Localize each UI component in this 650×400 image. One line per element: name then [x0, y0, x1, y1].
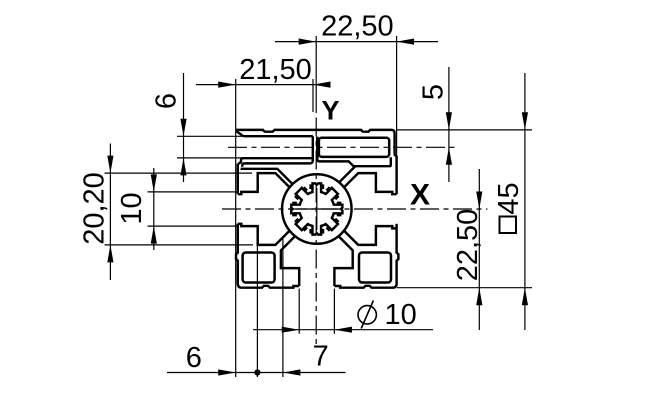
svg-text:6: 6: [151, 93, 183, 109]
dim line 6-7 bottom: [167, 372, 346, 374]
arrowhead sq45 top: [522, 112, 528, 130]
profile left slot lower chamber: [238, 224, 290, 245]
profile left slot upper chamber: [238, 173, 290, 194]
arrowhead 22,50 right top: [476, 192, 482, 210]
dim symbol diameter: [358, 306, 376, 324]
profile left face lower: [236, 224, 242, 288]
Y axis centerline: [315, 118, 317, 346]
ext line slit left wall: [312, 79, 314, 112]
dim square symbol: [500, 217, 517, 234]
arrowhead bottom 6: [218, 369, 236, 375]
arrowhead 5 bottom: [446, 147, 452, 165]
ext line 6-bottom: [177, 157, 242, 159]
ext line right face top: [396, 36, 398, 156]
arrowhead 22,50 right bottom: [476, 288, 482, 306]
svg-text:22,50: 22,50: [321, 10, 394, 42]
ext line bore right: [333, 289, 335, 334]
dim line 22,50 top: [275, 41, 438, 43]
svg-text:5: 5: [417, 84, 449, 100]
svg-text:7: 7: [313, 341, 329, 373]
profile bottom slot left chamber: [281, 236, 299, 286]
svg-text:10: 10: [385, 299, 417, 331]
ext line 20,20-bottom: [105, 244, 254, 246]
center crosshair: [296, 188, 338, 230]
profile flange slit right wall and channel underside: [317, 137, 391, 167]
dim line diameter 10: [253, 329, 433, 331]
profile top-left cavity floor: [241, 169, 293, 184]
ext line bore left: [298, 289, 300, 334]
svg-text:22,50: 22,50: [452, 209, 484, 282]
ext line 10-top: [148, 191, 239, 193]
arrowhead 10 top: [151, 174, 157, 192]
profile top-right web diagonal: [339, 166, 355, 182]
bottom-left corner square hole: [243, 253, 275, 283]
svg-text:21,50: 21,50: [239, 54, 312, 86]
arrowhead dia10 left: [282, 327, 300, 333]
profile bottom face right: [334, 228, 398, 287]
ext line top edge right: [397, 129, 532, 131]
dim line 21,50: [196, 84, 330, 86]
profile right face mouth lower edge: [395, 224, 397, 229]
arrowhead 6 left bottom: [180, 158, 186, 176]
arrowhead sq45 bottom: [522, 288, 528, 306]
svg-text:X: X: [410, 179, 430, 212]
ext line 10-bottom: [148, 225, 239, 227]
profile right slot lower chamber: [344, 226, 397, 245]
ext line core edge bottom: [282, 239, 284, 377]
profile flange channel hole: [319, 138, 389, 157]
arrowhead 6 left top: [180, 119, 186, 137]
profile right slot upper chamber: [344, 173, 397, 194]
ext line Y-axis top: [315, 36, 317, 113]
dim dot junction: [254, 369, 260, 375]
ext line chamber floor bottom: [256, 246, 258, 377]
arrowhead bottom 7: [283, 369, 301, 375]
arrowhead 20,20 top: [107, 156, 113, 174]
profile flange lower plate top edge: [238, 158, 313, 164]
arrowhead 20,20 bottom: [107, 245, 113, 263]
profile flange top plate: [237, 130, 397, 157]
arrowhead 21,50 right: [313, 82, 331, 88]
core circle: [282, 174, 352, 244]
svg-text:10: 10: [116, 192, 148, 224]
dim line 6 left: [183, 73, 185, 182]
profile bottom face left: [242, 286, 299, 288]
profile bottom slot right chamber: [334, 236, 352, 286]
arrowhead 10 bottom: [151, 226, 157, 244]
profile flange slit left wall and plate underside: [242, 136, 313, 167]
arrowhead 5 top: [446, 112, 452, 130]
dim line 22,50 right: [478, 169, 480, 330]
center bore gear: [291, 183, 342, 234]
ext line flange tip (long left): [235, 79, 237, 377]
svg-text:6: 6: [186, 342, 202, 374]
X axis centerline: [222, 208, 487, 210]
ext line 20,20-top: [105, 172, 253, 174]
arrowhead dia10 right: [334, 327, 352, 333]
ext line bottom edge right: [397, 287, 532, 289]
arrowhead 21,50 left: [218, 82, 236, 88]
profile right face upper: [395, 156, 397, 194]
ext line 6-top: [177, 135, 243, 137]
arrowhead 22,50 left: [299, 39, 317, 45]
svg-text:20,20: 20,20: [79, 172, 111, 245]
svg-text:45: 45: [493, 182, 525, 214]
profile left face upper: [237, 164, 239, 194]
svg-text:Y: Y: [322, 96, 340, 126]
dim line 5: [448, 67, 450, 182]
dim line 10: [153, 168, 155, 250]
bottom-right corner square hole: [359, 253, 391, 283]
arrowhead 22,50 right: [397, 39, 415, 45]
flange channel centerline: [228, 146, 458, 148]
dim line square 45: [524, 73, 526, 330]
dim line 20,20: [109, 144, 111, 281]
